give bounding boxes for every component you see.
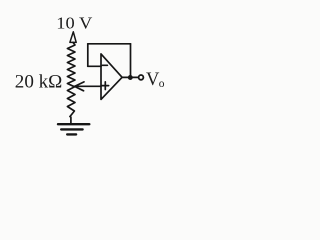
junction dot output node (128, 75, 133, 80)
svg-text:o: o (159, 78, 165, 90)
wire minus input (88, 65, 101, 67)
op-amp minus input marker (102, 64, 107, 66)
op-amp U1 (101, 54, 122, 100)
ground (58, 124, 89, 134)
potentiometer R1 20 kOhm zigzag (67, 42, 75, 116)
wire wiper to plus input (75, 85, 101, 87)
svg-text:10 V: 10 V (56, 14, 93, 33)
node 10V supply label (56, 14, 93, 33)
power supply arrow (70, 32, 76, 43)
svg-text:20 kΩ: 20 kΩ (15, 72, 63, 93)
wire op-amp output (122, 76, 139, 78)
wire feedback top horizontal (88, 43, 131, 45)
op-amp plus input marker (102, 85, 109, 87)
resistor value label 20 kOhm (15, 72, 63, 93)
output terminal circle (139, 75, 144, 80)
output label Vo (146, 70, 165, 90)
potentiometer wiper arrow (75, 82, 84, 91)
wire feedback left vertical (87, 44, 89, 67)
wire resistor to ground (69, 117, 72, 125)
wire feedback right vertical (130, 44, 132, 78)
